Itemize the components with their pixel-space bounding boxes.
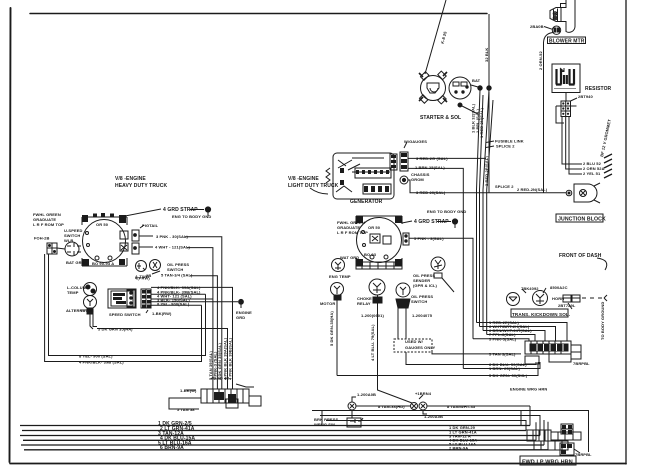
svg-text:SPLICE 2: SPLICE 2 (495, 184, 514, 189)
svg-text:SWITCH: SWITCH (167, 267, 183, 272)
svg-text:(GPR & ICL): (GPR & ICL) (413, 283, 438, 288)
svg-text:RELAY: RELAY (357, 301, 371, 306)
svg-text:USED W/: USED W/ (405, 339, 424, 344)
svg-text:1-200A0B: 1-200A0B (424, 414, 443, 419)
svg-text:8 TAN-33(HD): 8 TAN-33(HD) (378, 404, 405, 409)
svg-text:WRNG SW: WRNG SW (314, 422, 335, 427)
svg-text:ALTERNATOR: ALTERNATOR (66, 308, 94, 313)
svg-text:GROM: GROM (411, 177, 424, 182)
svg-text:2 ORN-52: 2 ORN-52 (538, 51, 543, 70)
svg-text:8500A2C: 8500A2C (550, 285, 568, 290)
svg-text:5 DK GRN 35(SAL): 5 DK GRN 35(SAL) (217, 342, 222, 380)
svg-text:L R F ROM TOP: L R F ROM TOP (33, 222, 64, 227)
svg-text:4 GRD STRAP: 4 GRD STRAP (414, 219, 449, 225)
svg-text:LIGHT DUTY TRUCK: LIGHT DUTY TRUCK (288, 183, 339, 189)
svg-text:2 BRN-9A: 2 BRN-9A (449, 446, 468, 451)
svg-text:ENG TO BODY GND: ENG TO BODY GND (427, 209, 466, 214)
svg-text:OR 50: OR 50 (96, 222, 109, 227)
svg-text:FRONT OF DASH: FRONT OF DASH (559, 253, 602, 259)
svg-text:TRANS. KICKDOWN SOL.: TRANS. KICKDOWN SOL. (512, 312, 570, 317)
svg-text:3 RED 20(SAL): 3 RED 20(SAL) (416, 190, 446, 195)
svg-text:BAT: BAT (472, 78, 481, 83)
svg-text:4 PNK/BLK- 39B (SAL): 4 PNK/BLK- 39B (SAL) (79, 360, 124, 365)
svg-text:MOTOR: MOTOR (320, 301, 335, 306)
svg-text:GENERATOR: GENERATOR (350, 199, 383, 205)
svg-text:GAUGES ONLY: GAUGES ONLY (405, 345, 436, 350)
svg-text:OR 50: OR 50 (368, 225, 381, 230)
svg-text:HORN: HORN (552, 296, 564, 301)
svg-text:32 BLK: 32 BLK (484, 48, 489, 62)
svg-text:SWITCH: SWITCH (411, 299, 427, 304)
svg-text:HEAVY DUTY TRUCK: HEAVY DUTY TRUCK (115, 183, 167, 189)
svg-text:4 GRD STRAP: 4 GRD STRAP (163, 207, 198, 213)
svg-text:1-BK(RW): 1-BK(RW) (152, 311, 172, 316)
svg-text:1-200A0B: 1-200A0B (357, 392, 376, 397)
svg-text:7BK4092: 7BK4092 (521, 286, 539, 291)
svg-text:1-2004075: 1-2004075 (412, 313, 433, 318)
svg-text:4 WHT - 121(SAL): 4 WHT - 121(SAL) (155, 245, 191, 250)
svg-text:2BT729L: 2BT729L (558, 303, 576, 308)
svg-text:SPLICE 2: SPLICE 2 (496, 144, 515, 149)
svg-text:3 RED 2P(SAL): 3 RED 2P(SAL) (484, 156, 489, 186)
svg-text:5 DK GRN-35(HA): 5 DK GRN-35(HA) (329, 311, 334, 346)
svg-text:2 YEL 51: 2 YEL 51 (583, 171, 601, 176)
svg-text:3 PNK - 30(SAL): 3 PNK - 30(SAL) (156, 234, 189, 239)
svg-text:8 YEL- 900(SAL): 8 YEL- 900(SAL) (157, 302, 190, 307)
svg-text:L R F ROM TOP: L R F ROM TOP (337, 230, 368, 235)
svg-text:JUNCTION BLOCK: JUNCTION BLOCK (558, 217, 606, 223)
svg-text:W/GAUGES: W/GAUGES (404, 139, 427, 144)
svg-text:BLOWER MTR: BLOWER MTR (549, 39, 585, 45)
svg-text:1-BK(W): 1-BK(W) (180, 388, 197, 393)
svg-text:WAT GRD: WAT GRD (340, 255, 359, 260)
svg-text:5 DK GRN 35(HA): 5 DK GRN 35(HA) (98, 327, 133, 332)
svg-text:1 BRN-25(SAL): 1 BRN-25(SAL) (415, 165, 445, 170)
svg-text:4 LT BLU- 79(SAL): 4 LT BLU- 79(SAL) (370, 324, 375, 361)
svg-text:BAT GRD: BAT GRD (66, 260, 85, 265)
svg-text:V/8 -ENGINE: V/8 -ENGINE (288, 176, 319, 182)
svg-text:SPEED SWITCH: SPEED SWITCH (109, 312, 141, 317)
svg-text:STARTER & SOL: STARTER & SOL (420, 115, 461, 121)
svg-text:1 BLK 32(SAL): 1 BLK 32(SAL) (471, 103, 476, 133)
svg-text:GRD: GRD (236, 315, 245, 320)
svg-text:ENG TO BODY GND: ENG TO BODY GND (172, 214, 211, 219)
svg-text:FOH-2B: FOH-2B (34, 236, 50, 241)
svg-text:6 BRN-9A: 6 BRN-9A (160, 445, 184, 451)
svg-text:2BA0B: 2BA0B (530, 24, 544, 29)
svg-text:1 RED 2N(SAL): 1 RED 2N(SAL) (479, 107, 484, 138)
svg-text:RESISTOR: RESISTOR (585, 86, 612, 92)
svg-text:BO 90-93 A: BO 90-93 A (92, 261, 114, 266)
svg-text:3 RED-2G (SAL): 3 RED-2G (SAL) (416, 156, 448, 161)
svg-text:ENG TEMP: ENG TEMP (329, 274, 351, 279)
svg-text:8 YEL- 900 (SAL): 8 YEL- 900 (SAL) (79, 354, 113, 359)
svg-text:4 PNK BLK 39B(SAL): 4 PNK BLK 39B(SAL) (228, 337, 233, 380)
svg-text:ENGINE WRG HRN: ENGINE WRG HRN (510, 387, 547, 392)
svg-text:2 RED-2N(SAL): 2 RED-2N(SAL) (517, 187, 548, 192)
svg-text:+1BRN4: +1BRN4 (415, 391, 432, 396)
svg-text:7BRPBL: 7BRPBL (573, 361, 590, 366)
svg-text:8 TAN/WHT-33: 8 TAN/WHT-33 (447, 404, 476, 409)
svg-text:BO 93: BO 93 (364, 252, 377, 257)
svg-text:7BRPBL: 7BRPBL (575, 452, 592, 457)
svg-text:2BT940: 2BT940 (578, 94, 594, 99)
svg-text:V/8 -ENGINE: V/8 -ENGINE (115, 176, 146, 182)
svg-text:5 TAN-3/4 (SAL): 5 TAN-3/4 (SAL) (161, 273, 193, 278)
svg-text:TO BODY GROUND: TO BODY GROUND (600, 302, 605, 340)
svg-text:1-200(0601): 1-200(0601) (361, 313, 384, 318)
svg-text:5 TAN 38: 5 TAN 38 (177, 407, 195, 412)
svg-text:TEMP: TEMP (67, 290, 79, 295)
svg-text:PIGTAIL: PIGTAIL (142, 223, 159, 228)
svg-text:FWD LP WRG HRN: FWD LP WRG HRN (522, 460, 573, 466)
svg-text:WLR: WLR (64, 238, 73, 243)
svg-text:4(PRW): 4(PRW) (135, 276, 150, 281)
